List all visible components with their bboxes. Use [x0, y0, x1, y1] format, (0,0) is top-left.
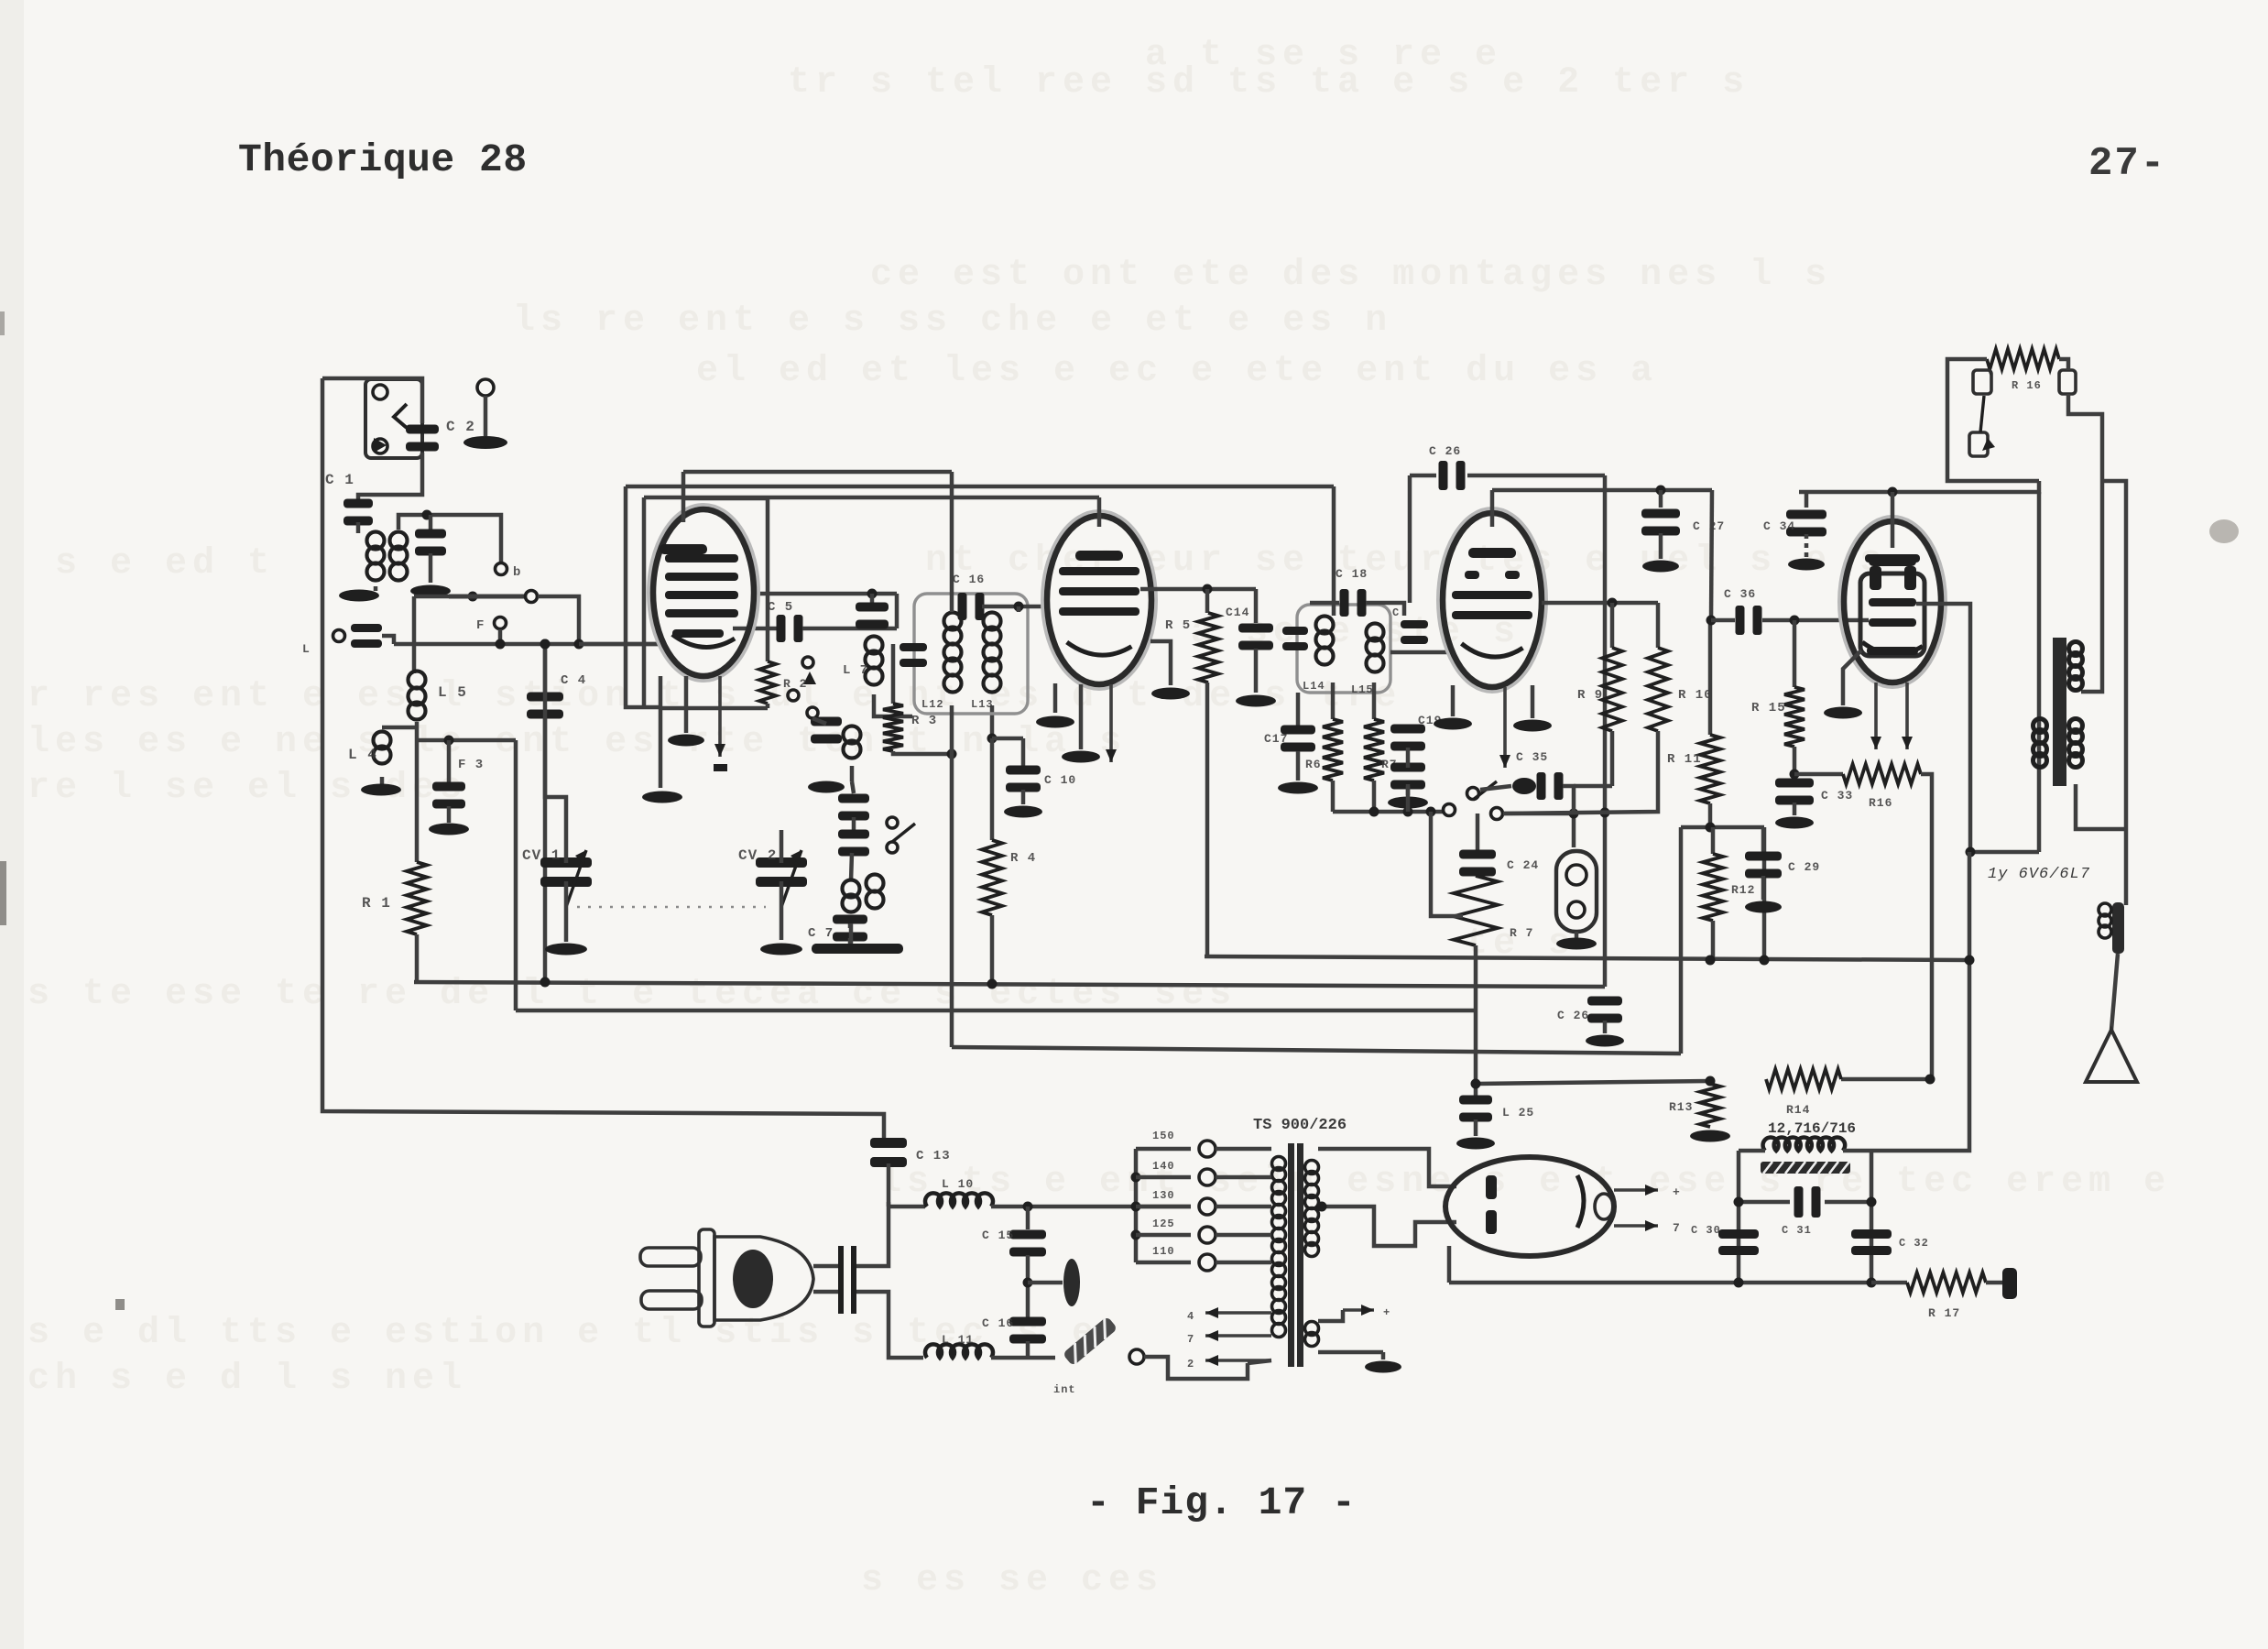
svg-text:C 32: C 32	[1899, 1237, 1929, 1250]
svg-text:TS 900/226: TS 900/226	[1253, 1117, 1347, 1134]
svg-text:F 3: F 3	[458, 758, 484, 772]
gang dashed link	[577, 906, 766, 909]
padder switch contacts	[887, 817, 898, 828]
V1 anode box	[766, 498, 770, 661]
capacitor C19	[1390, 725, 1425, 734]
capacitor C30	[1718, 1229, 1759, 1239]
wire V2 plate out	[1140, 587, 1256, 592]
mains plug	[640, 1248, 701, 1266]
svg-text:L12: L12	[921, 698, 944, 711]
svg-text:R 15: R 15	[1751, 701, 1786, 715]
ground (L6)	[808, 781, 845, 793]
wire V3 plate row	[1542, 601, 1658, 606]
ground (C14)	[1236, 695, 1276, 707]
svg-text:R 5: R 5	[1165, 618, 1191, 633]
fuse	[1063, 1316, 1118, 1367]
resistor R14	[1766, 1069, 1841, 1089]
capacitor C32	[1851, 1229, 1892, 1239]
ground (C17)	[1278, 782, 1318, 794]
tone switch	[1444, 804, 1456, 816]
svg-text:C 16: C 16	[982, 1316, 1014, 1330]
ground (filament)	[1381, 1352, 1386, 1360]
coil L6	[811, 717, 842, 726]
ground (L4)	[361, 784, 401, 796]
svg-text:1y 6V6/6L7: 1y 6V6/6L7	[1988, 866, 2090, 883]
tap 110	[1136, 1261, 1191, 1265]
resistor R11	[1708, 620, 1713, 735]
ground (C19/C20)	[1388, 797, 1428, 809]
wire V3 cathode leads	[1451, 685, 1456, 716]
capacitor C6b	[838, 794, 869, 803]
svg-text:7: 7	[1187, 1333, 1194, 1346]
svg-text:C 31: C 31	[1782, 1224, 1812, 1237]
variable capacitor CV1	[540, 857, 592, 868]
svg-text:125: 125	[1152, 1218, 1175, 1230]
svg-text:R 7: R 7	[1510, 926, 1533, 940]
resistor R1	[407, 862, 427, 934]
wire B- bus (y=1180)	[1476, 1081, 1710, 1084]
svg-text:L13: L13	[971, 698, 994, 711]
svg-text:C 10: C 10	[1044, 773, 1076, 787]
resistor R7b (volume)	[1454, 876, 1498, 945]
svg-text:C 7: C 7	[808, 926, 834, 941]
svg-text:C 2: C 2	[446, 419, 475, 435]
wire bus2 drop to T2	[1332, 486, 1336, 616]
page speck	[2209, 519, 2239, 543]
wire grid line to tube V1	[579, 642, 627, 647]
capacitor C27	[1656, 486, 1666, 496]
svg-text:C 30: C 30	[1691, 1224, 1721, 1237]
capacitor C29	[1761, 827, 1766, 852]
tuning indicator lamp	[1556, 851, 1597, 932]
capacitor C34	[1805, 492, 1809, 508]
wire volume return	[1426, 807, 1436, 817]
wire screen bus drop	[1711, 490, 1712, 620]
svg-text:b: b	[513, 565, 521, 580]
svg-text:R 16: R 16	[2012, 379, 2042, 392]
svg-text:r res ent e es l stion t: r res ent e es l stion t s ul e nt es d …	[27, 676, 1401, 717]
ground (line filter)	[1028, 1281, 1063, 1285]
capacitor C35 (series)	[1512, 778, 1536, 794]
tap 140	[1131, 1173, 1141, 1183]
svg-text:R 1: R 1	[362, 895, 391, 912]
svg-text:C 16: C 16	[953, 573, 985, 586]
line choke L11	[925, 1344, 993, 1358]
wire	[851, 853, 852, 881]
wire HV to rectifier plate 2	[1322, 1207, 1456, 1246]
wire C25 right drop	[1603, 475, 1608, 987]
svg-text:L 25: L 25	[1502, 1106, 1534, 1119]
svg-text:nt cher eur se teur tes e u: nt cher eur se teur tes e uel s e s	[925, 541, 1887, 582]
TR1 primary winding	[1272, 1157, 1286, 1171]
wire B+ rail down right	[1871, 852, 1969, 1151]
wire top bus 2	[626, 485, 1334, 489]
svg-text:C17: C17	[1264, 732, 1288, 746]
svg-text:130: 130	[1152, 1189, 1175, 1202]
svg-text:R 11: R 11	[1667, 752, 1702, 767]
tube V2 (IF amplifier)	[1042, 511, 1156, 689]
svg-text:C 27: C 27	[1693, 519, 1725, 533]
TR2 secondary winding A	[2034, 719, 2047, 733]
wire V2 cathode leads	[1053, 683, 1058, 713]
tube V5 (rectifier)	[1445, 1157, 1614, 1256]
ground (V3 cathode)	[1434, 718, 1472, 730]
ground (L25)	[1456, 1138, 1495, 1150]
output transformer TR2 core	[2053, 638, 2066, 786]
wire coil link	[398, 515, 501, 562]
ground (C26)	[1586, 1035, 1624, 1047]
svg-text:ch s e d l s nel: ch s e d l s nel	[27, 1359, 467, 1400]
T2 primary L14	[1316, 617, 1334, 634]
capacitor C26 (to ground)	[1587, 997, 1622, 1006]
wire T1 to V2 grid	[982, 605, 1050, 609]
wire AVC bus (y=1046)	[1205, 956, 1969, 960]
capacitor C11 (phono)	[351, 624, 382, 632]
capacitor C10b (T2 tuning)	[1282, 627, 1308, 635]
wire output stage bus	[1799, 481, 2039, 492]
svg-text:s e ed t: s e ed t	[55, 543, 275, 584]
wire to L5	[414, 595, 473, 599]
wire C18 line	[1310, 601, 1339, 606]
ground (indicator)	[1556, 938, 1597, 950]
svg-text:les es e ne s le ent es: les es e ne s le ent es rte tenet n la s	[27, 722, 1127, 763]
tube V3 (detector-AF)	[1438, 508, 1546, 692]
V1 filament lead	[718, 676, 722, 757]
wire T2 to V3 grid	[1390, 650, 1447, 655]
TR2 secondary winding B	[2069, 719, 2083, 733]
wire R9 to audio node	[1574, 784, 1612, 789]
capacitor C31 (series)	[1739, 1200, 1790, 1205]
svg-text:C14: C14	[1226, 606, 1249, 619]
ground (CV2)	[760, 944, 802, 956]
svg-text:L 7: L 7	[843, 663, 868, 678]
capacitor C16 (series)	[958, 593, 967, 620]
speaker voice coil	[2112, 902, 2124, 954]
variable capacitor CV2	[756, 857, 807, 868]
svg-text:R 10: R 10	[1678, 688, 1713, 703]
wire HV to rectifier plate 1	[1318, 1149, 1456, 1186]
ground (V2 right)	[1151, 688, 1190, 700]
ground (CV1)	[545, 944, 587, 956]
capacitor C (trimmer at input)	[429, 515, 433, 531]
speaker terminal left	[1973, 370, 1991, 394]
ground (C10)	[1004, 806, 1042, 818]
antenna jack J1	[365, 379, 422, 458]
wire AVC bus 2 (y=1077)	[414, 982, 1605, 987]
wire tap to C3	[417, 738, 516, 743]
wire screen row V1	[757, 592, 897, 596]
svg-text:CV 1: CV 1	[522, 847, 561, 864]
ground (V2 screen)	[1062, 751, 1100, 763]
wire C25 left drop	[1408, 475, 1412, 603]
capacitor C17	[1296, 693, 1301, 726]
speaker cone (triangle)	[2086, 1030, 2137, 1082]
ground (V1 grid return)	[668, 735, 704, 747]
wire AVC row y=886	[1333, 810, 1443, 814]
svg-text:re l se el s des: re l se el s des	[27, 768, 467, 809]
svg-text:27-: 27-	[2088, 141, 2166, 187]
svg-text:L15: L15	[1351, 683, 1374, 696]
svg-text:- Fig. 17 -: - Fig. 17 -	[1086, 1480, 1357, 1525]
T1 primary L12	[944, 613, 962, 630]
connector bars	[838, 1246, 844, 1314]
wire switch to grid line	[538, 596, 579, 644]
svg-text:C 34: C 34	[1763, 519, 1795, 533]
capacitor C16b (line filter)	[1009, 1317, 1046, 1327]
svg-text:F: F	[476, 618, 485, 633]
svg-text:R 4: R 4	[1010, 851, 1036, 866]
wire left rail	[322, 378, 884, 1142]
capacitor C4	[540, 639, 551, 650]
TR1 filament winding	[1305, 1322, 1319, 1336]
capacitor C10	[992, 737, 1023, 741]
wire bias bus (y=1150)	[952, 1047, 1681, 1054]
wire IF1 to R4	[990, 705, 995, 738]
ground (C27)	[1642, 561, 1679, 573]
resistor R2	[759, 661, 776, 704]
switch terminal	[1129, 1349, 1144, 1364]
svg-text:ls ts e ent seln esne s: ls ts e ent seln esne s e t ese s re tec…	[879, 1162, 2171, 1203]
svg-text:+: +	[1383, 1306, 1390, 1319]
resistor R16 (field coil)	[1987, 349, 2059, 369]
wire	[852, 817, 856, 833]
wire L25 drop	[1474, 1010, 1478, 1096]
capacitor C5	[777, 615, 786, 642]
heater taps	[1205, 1311, 1271, 1315]
ground (L2)	[339, 590, 379, 602]
wire drop from F3 node	[514, 740, 518, 1010]
svg-text:L 11: L 11	[942, 1333, 974, 1347]
coil L5	[409, 672, 426, 689]
wire voice coil	[2076, 784, 2126, 829]
wire V2 right lead	[1150, 641, 1171, 685]
ground (V1 cathode)	[642, 792, 682, 803]
wire AVC return bus (y=1103)	[516, 1009, 1476, 1013]
wire CV1 top	[545, 644, 566, 830]
ground (V4)	[1824, 707, 1862, 719]
svg-text:Théorique 28: Théorique 28	[238, 137, 528, 182]
tube V4 (output)	[1839, 517, 1946, 687]
ground (V3 screen)	[1513, 720, 1552, 732]
capacitor C6	[870, 594, 875, 605]
svg-text:C 18: C 18	[1336, 567, 1368, 581]
ground (R13)	[1690, 1130, 1730, 1142]
capacitor C24	[1476, 814, 1480, 850]
wire mains upper	[856, 1202, 889, 1266]
svg-text:R 3: R 3	[911, 714, 937, 728]
svg-text:C 26: C 26	[1429, 444, 1461, 458]
speaker terminal lower	[1969, 432, 1988, 456]
wavechange switch S1	[468, 592, 478, 602]
capacitor C6c	[838, 830, 869, 839]
wire audio top bus (right)	[1410, 474, 1436, 478]
capacitor C18 (series)	[1340, 589, 1349, 617]
svg-text:L 4: L 4	[348, 747, 377, 763]
voltage selector bracket	[1134, 1149, 1139, 1262]
svg-text:C 4: C 4	[561, 673, 586, 688]
ground (V2 cathode)	[1036, 716, 1074, 728]
svg-text:2: 2	[1187, 1358, 1194, 1371]
capacitor C1	[343, 499, 373, 508]
resistor R13	[1706, 1076, 1716, 1087]
IF transformer T2 box	[1297, 605, 1390, 693]
svg-text:C: C	[1392, 606, 1400, 619]
svg-text:C 24: C 24	[1507, 858, 1539, 872]
antenna coil L2	[367, 532, 385, 550]
svg-text:C 35: C 35	[1516, 750, 1548, 764]
svg-text:140: 140	[1152, 1160, 1175, 1173]
wire V4 plate out	[1916, 604, 1970, 852]
coil L7	[866, 637, 883, 654]
V2 filament lead	[1109, 684, 1113, 762]
wire L5 down	[415, 722, 420, 862]
ground (C33)	[1775, 817, 1814, 829]
bias network box	[1681, 825, 1764, 830]
wire V1 top lead	[681, 472, 686, 522]
wire speaker enclosure	[1947, 359, 2039, 481]
output terminal blob	[2002, 1268, 2017, 1299]
antenna coil L3	[390, 532, 408, 550]
svg-text:a t se s re e: a t se s re e	[1145, 35, 1502, 76]
wire filament return	[1318, 1310, 1343, 1321]
svg-text:C 36: C 36	[1724, 587, 1756, 601]
tap 130	[1131, 1202, 1141, 1212]
line choke L10	[889, 1205, 925, 1209]
svg-text:C 5: C 5	[768, 600, 793, 615]
capacitor C20	[1390, 763, 1425, 772]
resistor R6	[1331, 683, 1336, 719]
T2 secondary L15	[1367, 624, 1384, 641]
svg-text:C 33: C 33	[1821, 789, 1853, 803]
wire rectifier to B bus	[1447, 1246, 1452, 1283]
svg-text:ls re ent e s ss che e et: ls re ent e s ss che e et e es n	[513, 300, 1392, 342]
capacitor C15b (line filter)	[1026, 1207, 1030, 1229]
svg-text:R 2: R 2	[783, 677, 807, 691]
svg-text:110: 110	[1152, 1245, 1175, 1258]
svg-text:R14: R14	[1786, 1103, 1810, 1117]
capacitor C33	[1775, 779, 1814, 788]
capacitor C15 (grid)	[1401, 620, 1428, 628]
svg-text:12,716/716: 12,716/716	[1768, 1120, 1856, 1137]
wire screen bus right	[1492, 488, 1712, 493]
svg-text:R6: R6	[1305, 758, 1322, 771]
resistor R16b (feedback)	[1794, 772, 1843, 777]
svg-text:R 9: R 9	[1577, 688, 1603, 703]
resistor R5	[1205, 589, 1210, 613]
ground (C34)	[1788, 559, 1825, 571]
resistor R7	[1372, 683, 1377, 719]
terminal F	[495, 617, 507, 629]
wire grid line y=703	[394, 642, 660, 647]
wire to frame	[2111, 954, 2118, 1030]
svg-text:el ed et les e ec e ete: el ed et les e ec e ete ent du es a	[696, 351, 1658, 392]
svg-text:L14: L14	[1303, 680, 1325, 693]
wire	[848, 938, 853, 945]
wire osc feed	[627, 642, 660, 647]
V3 filament lead	[1503, 687, 1507, 768]
svg-text:C 1: C 1	[325, 472, 354, 488]
wire rectifier output bus (y=1400)	[1449, 1281, 1871, 1285]
resistor R17	[1871, 1281, 1907, 1285]
resistor R10	[1656, 603, 1661, 648]
svg-text:+: +	[1673, 1185, 1681, 1199]
wire choke ends	[1739, 1149, 1765, 1153]
tap 150	[1136, 1147, 1191, 1152]
svg-text:C 13: C 13	[916, 1149, 951, 1163]
capacitor L25 (filter)	[1459, 1096, 1492, 1105]
svg-text:CV 2: CV 2	[738, 847, 777, 864]
tap 125	[1131, 1230, 1141, 1240]
wire grid line to V4	[1706, 616, 1717, 626]
svg-text:C 15: C 15	[982, 1229, 1014, 1242]
ground (C29)	[1745, 901, 1782, 913]
wire B+ drop x=1039	[950, 472, 954, 612]
IF transformer T1 box	[914, 594, 1028, 714]
svg-text:L 5: L 5	[438, 684, 467, 701]
svg-text:R13: R13	[1669, 1100, 1693, 1114]
speaker terminal right	[2059, 370, 2076, 394]
svg-text:7: 7	[1673, 1221, 1681, 1235]
svg-text:C 26: C 26	[1557, 1009, 1589, 1022]
rectifier outputs	[1614, 1188, 1658, 1192]
wire B+ top bus 1	[683, 470, 952, 475]
capacitor C25 (series, top audio)	[1439, 461, 1448, 490]
wire antenna top	[322, 378, 422, 423]
ground (trimmer)	[410, 585, 451, 597]
terminal B	[496, 563, 507, 575]
resistor R4	[990, 738, 995, 840]
capacitor C14	[1254, 589, 1259, 623]
svg-text:s es se ces: s es se ces	[861, 1560, 1163, 1601]
capacitor C36 (series to output grid)	[1736, 606, 1745, 635]
oscillator coils L8 L9	[843, 880, 860, 898]
svg-text:150: 150	[1152, 1130, 1175, 1142]
capacitor C13	[870, 1138, 907, 1148]
capacitor C3	[432, 782, 465, 792]
wire top bus 3	[644, 496, 1099, 500]
wire mains lower	[856, 1292, 923, 1358]
wire B+ to output transformer	[2037, 492, 2042, 852]
coil L4	[382, 726, 417, 730]
TR2 primary winding	[2069, 642, 2083, 656]
wire V1 cathode row	[626, 486, 660, 707]
V4 bottom leads	[1843, 650, 1861, 705]
resistor R15	[1793, 620, 1797, 687]
capacitor C7	[833, 915, 867, 924]
resistor R3	[891, 644, 896, 704]
transformer TR1 core	[1288, 1143, 1294, 1367]
wire V3 top lead	[1490, 490, 1495, 527]
svg-text:R12: R12	[1731, 883, 1755, 897]
svg-text:4: 4	[1187, 1310, 1194, 1323]
resistor R12	[1711, 827, 1716, 854]
wire V4 top lead	[1888, 487, 1898, 497]
ground bus under oscillator	[812, 944, 903, 954]
wire V2 top lead	[1097, 497, 1102, 527]
phono terminal	[333, 630, 345, 642]
TR1 secondary HV winding	[1305, 1161, 1319, 1174]
oscillator switch contacts	[802, 657, 813, 668]
svg-text:C 29: C 29	[1788, 860, 1820, 874]
wire tone switch out	[1503, 814, 1574, 847]
svg-text:R16: R16	[1869, 796, 1892, 810]
wire	[848, 922, 853, 928]
svg-text:R 17: R 17	[1928, 1306, 1960, 1320]
capacitor C2	[406, 425, 439, 434]
wire osc link	[895, 594, 900, 628]
svg-text:L: L	[302, 642, 311, 656]
earth terminal	[477, 379, 494, 396]
